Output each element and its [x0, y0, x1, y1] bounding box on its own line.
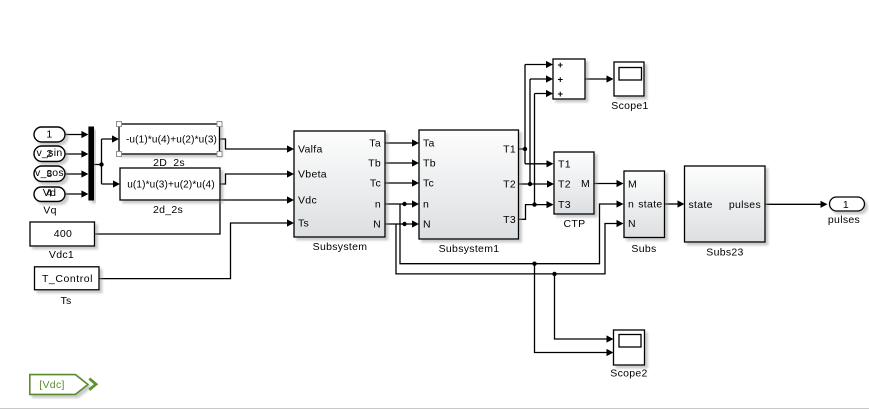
arrow into mux 1	[81, 131, 88, 138]
arrow into Fcn2	[113, 180, 120, 187]
svg-text:M: M	[628, 179, 637, 191]
svg-text:+: +	[558, 74, 564, 85]
svg-text:T3: T3	[558, 199, 571, 211]
chevron after Vdc tag	[89, 379, 96, 390]
wire mux output trunk	[94, 139, 114, 184]
wire Ta	[385, 142, 413, 144]
arrow into Sub1 Ta	[412, 139, 419, 146]
wire n branch down to bus A	[400, 204, 618, 264]
arrow into Sub1 Tb	[412, 159, 419, 166]
arrow into Add in2	[546, 75, 553, 82]
svg-text:n: n	[423, 199, 429, 211]
arrow into Vdc	[287, 196, 294, 203]
wire T2 to CTP and Add	[519, 79, 548, 184]
svg-text:Tc: Tc	[370, 178, 381, 190]
node N branch	[402, 222, 406, 226]
arrow into Scope2 upper	[607, 335, 614, 342]
svg-text:Vbeta: Vbeta	[298, 169, 327, 181]
svg-text:Subsystem1: Subsystem1	[439, 243, 500, 255]
wire T_Control to Ts	[99, 223, 288, 279]
svg-text:T1: T1	[558, 158, 571, 170]
inport oval v_sin	[34, 146, 65, 162]
svg-text:Subsystem: Subsystem	[313, 241, 368, 253]
svg-text:Scope2: Scope2	[610, 368, 647, 380]
wire Subs23 pulses to outport	[765, 203, 821, 205]
svg-text:400: 400	[54, 228, 72, 240]
arrow into CTP T3	[547, 201, 554, 208]
svg-text:2D_2s: 2D_2s	[153, 157, 185, 169]
svg-text:Vdc: Vdc	[298, 195, 317, 207]
svg-text:u(1)*u(3)+u(2)*u(4): u(1)*u(3)+u(2)*u(4)	[127, 180, 215, 191]
arrow into Vbeta	[287, 170, 294, 177]
svg-text:pulses: pulses	[729, 199, 761, 211]
arrow into Subs n	[617, 200, 624, 207]
ARROWHEADS	[81, 61, 827, 356]
svg-text:n: n	[628, 199, 634, 211]
inport oval v_cos	[34, 166, 65, 182]
arrow into Subs M	[617, 180, 624, 187]
svg-text:Ts: Ts	[298, 218, 309, 230]
svg-text:4: 4	[46, 188, 52, 200]
wire oval1 to mux	[65, 134, 82, 136]
wire bus A branch to Scope2 lower	[535, 264, 608, 353]
subsystem CTP	[554, 152, 594, 214]
svg-text:Ta: Ta	[369, 138, 381, 150]
node bus B branch	[552, 272, 556, 276]
add block	[553, 59, 585, 99]
arrow into Sub1 N	[412, 220, 419, 227]
wire Tb	[385, 162, 413, 164]
goto tag Vdc	[30, 375, 88, 395]
wire Subs state to Subs23	[665, 203, 679, 205]
svg-text:2d_2s: 2d_2s	[153, 204, 183, 216]
selection handles Fcn1	[117, 122, 223, 157]
svg-text:T2: T2	[503, 179, 516, 191]
wire 400 to Vdc	[95, 200, 289, 234]
arrow into Fcn1	[112, 135, 119, 142]
wire Tc	[385, 182, 413, 184]
subsystem Subsystem	[294, 131, 385, 237]
Fcn block 2d_2s	[120, 168, 220, 200]
svg-text:state: state	[689, 199, 713, 211]
bottom border line	[0, 408, 869, 409]
arrow into Sub1 Tc	[412, 179, 419, 186]
arrow into Valfa	[287, 145, 294, 152]
svg-text:M: M	[581, 178, 590, 190]
arrow into Add in3	[546, 90, 553, 97]
arrow into mux 2	[81, 150, 88, 157]
mux bar	[88, 127, 94, 201]
node T1 branch	[523, 147, 527, 151]
outport oval pulses	[830, 197, 865, 211]
constant 400	[30, 222, 95, 246]
wire bus B branch to Scope2 upper	[555, 274, 608, 339]
svg-text:Tc: Tc	[423, 178, 434, 190]
inport oval 1	[34, 127, 65, 142]
wire Add to Scope1	[585, 78, 607, 80]
arrow into Sub1 n	[412, 200, 419, 207]
node bus A branch	[532, 262, 536, 266]
arrow into Scope2 lower	[607, 349, 614, 356]
arrow into mux 3	[81, 170, 88, 177]
svg-text:+: +	[558, 89, 564, 100]
svg-text:T2: T2	[558, 179, 571, 191]
arrow into mux 4	[81, 190, 88, 197]
wire Fcn1 to Valfa	[220, 139, 289, 149]
svg-text:-u(1)*u(4)+u(2)*u(3): -u(1)*u(4)+u(2)*u(3)	[126, 135, 217, 146]
svg-text:Scope1: Scope1	[611, 100, 648, 112]
svg-text:N: N	[373, 219, 381, 231]
wire T3 to CTP and Add	[519, 94, 547, 220]
scope Scope1	[614, 62, 644, 96]
svg-text:3: 3	[46, 168, 52, 180]
wire oval3 to mux	[65, 173, 82, 175]
svg-text:Subs: Subs	[631, 243, 656, 255]
svg-text:T3: T3	[503, 214, 516, 226]
svg-text:2: 2	[46, 148, 52, 160]
svg-text:Ts: Ts	[60, 295, 71, 307]
svg-text:Vdc1: Vdc1	[49, 249, 74, 261]
node T2 branch	[528, 182, 532, 186]
arrow into Scope1	[607, 75, 614, 82]
wire T1 to CTP and Add	[519, 65, 548, 164]
arrow into Subs N	[617, 220, 624, 227]
svg-text:[Vdc]: [Vdc]	[39, 379, 64, 391]
subsystem Subsystem1	[419, 130, 519, 239]
inport oval Vd	[34, 187, 65, 202]
svg-text:+: +	[558, 60, 564, 71]
subsystem Subs23	[685, 166, 766, 242]
constant T_Control	[35, 267, 100, 290]
scope Scope2	[614, 330, 645, 365]
svg-text:Ta: Ta	[423, 138, 435, 150]
svg-text:T_Control: T_Control	[42, 273, 93, 285]
arrow into outport pulses	[821, 201, 828, 208]
svg-text:N: N	[628, 218, 636, 230]
svg-text:Tb: Tb	[368, 158, 381, 170]
svg-text:N: N	[423, 219, 431, 231]
node n branch	[402, 202, 406, 206]
subsystem Subs	[624, 171, 665, 238]
node mux branch	[99, 162, 103, 166]
arrow into Add in1	[546, 61, 553, 68]
svg-text:Tb: Tb	[423, 158, 436, 170]
svg-text:1: 1	[843, 199, 849, 211]
svg-text:T1: T1	[503, 144, 516, 156]
arrow into CTP T2	[547, 180, 554, 187]
arrow into Subs23 state	[678, 200, 685, 207]
wire N	[385, 223, 413, 225]
svg-text:CTP: CTP	[564, 218, 586, 230]
node T3 branch	[532, 202, 536, 206]
svg-text:1: 1	[46, 129, 52, 141]
wire oval2 to mux	[65, 153, 82, 155]
Fcn block 2D_2s	[119, 124, 220, 154]
svg-text:Valfa: Valfa	[298, 144, 323, 156]
arrow into Ts	[287, 219, 294, 226]
svg-text:n: n	[375, 199, 381, 211]
svg-text:Vq: Vq	[43, 205, 56, 217]
svg-text:pulses: pulses	[828, 214, 860, 226]
wire oval4 to mux	[65, 193, 82, 195]
JUNCTION DOTS	[99, 147, 556, 276]
svg-text:state: state	[638, 199, 662, 211]
wire n	[385, 203, 413, 205]
wire Fcn2 to Vbeta	[220, 174, 288, 184]
wire CTP M to Subs M	[594, 183, 617, 185]
arrow into CTP T1	[547, 160, 554, 167]
wire N branch down to bus B	[396, 224, 618, 274]
svg-text:Subs23: Subs23	[706, 247, 743, 259]
